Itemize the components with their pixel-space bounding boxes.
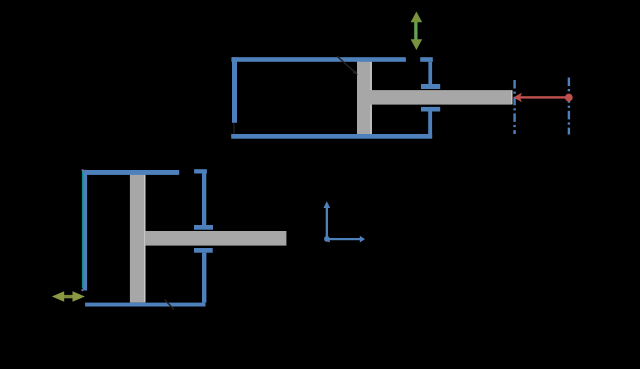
green arrow top shaft bbox=[414, 22, 417, 41]
cylinder A rod light end edge bbox=[511, 91, 512, 105]
cylinder B rod bbox=[145, 231, 286, 246]
dash-dot centerline left bbox=[513, 80, 515, 134]
cylinder A port connector (faint) bbox=[233, 123, 234, 134]
cylinder B top cap bbox=[194, 169, 207, 173]
cylinder B purple endpoint top bbox=[81, 169, 83, 171]
cylinder B flange below rod bbox=[194, 248, 213, 253]
cylinder A leader line bbox=[337, 56, 356, 73]
green arrow bottom head right bbox=[73, 291, 85, 301]
cylinder A flange above rod bbox=[421, 84, 440, 89]
red dimension line bbox=[517, 96, 568, 98]
cylinder A rod bbox=[368, 90, 513, 105]
cylinder B top line bbox=[83, 170, 179, 175]
cylinder B purple endpoint bottom bbox=[81, 289, 83, 291]
red arrowhead bbox=[513, 93, 522, 103]
cylinder A left wall bbox=[232, 57, 237, 123]
axes vertical arrowhead bbox=[323, 201, 330, 208]
cylinder B right wall below rod bbox=[202, 253, 206, 303]
axes purple endpoint bbox=[328, 240, 330, 242]
cylinder B piston bbox=[130, 172, 146, 303]
cylinder A right wall below rod bbox=[428, 112, 432, 135]
green arrow top head down bbox=[411, 39, 423, 50]
cylinder B teal wall edge bbox=[82, 170, 83, 288]
cylinder A piston bbox=[357, 59, 372, 136]
red dot bbox=[565, 94, 573, 102]
green arrow top head up bbox=[411, 12, 423, 23]
cylinder B leader line bbox=[165, 300, 175, 310]
cylinder A flange below rod bbox=[421, 107, 440, 112]
axes horizontal arrowhead bbox=[360, 236, 365, 243]
cylinder A gland vertical bbox=[428, 62, 432, 84]
green arrow bottom shaft bbox=[63, 295, 75, 298]
cylinder A bottom line bbox=[231, 134, 432, 139]
cylinder A top-right cap bbox=[420, 57, 433, 62]
green arrow bottom head left bbox=[52, 291, 64, 301]
axes origin dot bbox=[324, 236, 330, 242]
axes horizontal shaft bbox=[327, 238, 361, 240]
cylinder A top line bbox=[231, 57, 406, 62]
cylinder B bottom line bbox=[85, 303, 205, 307]
cylinder A piston light edge bbox=[370, 62, 371, 134]
axes vertical shaft bbox=[326, 207, 328, 239]
dash-dot centerline right bbox=[568, 78, 570, 135]
cylinder A leader arrowhead bbox=[353, 70, 358, 75]
cylinder B left wall bbox=[83, 170, 87, 291]
cylinder B piston light edge bbox=[144, 175, 145, 302]
cylinder B gland vertical bbox=[202, 174, 206, 226]
cylinder B flange above rod bbox=[194, 225, 213, 230]
